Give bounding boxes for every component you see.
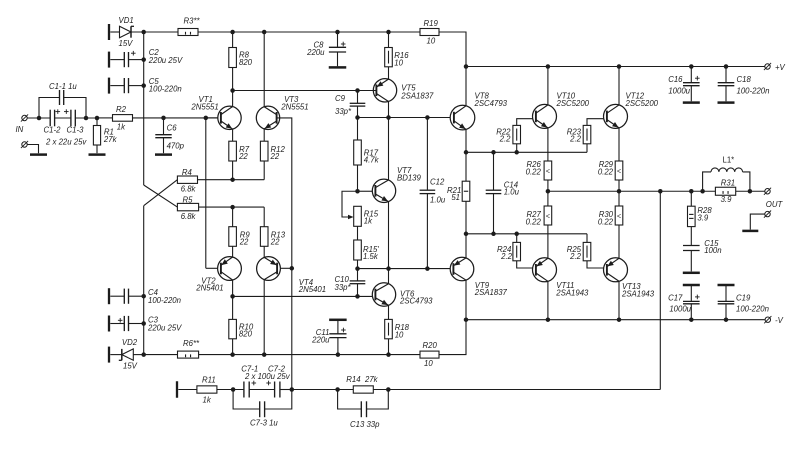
svg-text:100-220n: 100-220n bbox=[148, 296, 181, 305]
power bar for VD1 bbox=[108, 24, 110, 40]
svg-text:2SC5200: 2SC5200 bbox=[625, 99, 659, 108]
svg-text:6.8k: 6.8k bbox=[181, 212, 197, 221]
wire bbox=[263, 32, 265, 107]
svg-text:15V: 15V bbox=[119, 39, 134, 48]
junction bbox=[355, 266, 360, 271]
svg-text:220u 25V: 220u 25V bbox=[147, 324, 182, 333]
zener diode VD1 15V bbox=[119, 16, 135, 48]
junction bbox=[386, 266, 391, 271]
junction bbox=[546, 189, 551, 194]
wire bias -15V vertical bbox=[143, 206, 145, 355]
junction bbox=[491, 232, 496, 237]
wire VT3 base to feedback bbox=[277, 118, 292, 268]
resistor R1 27k bbox=[93, 118, 117, 153]
resistor R18 10 bbox=[385, 305, 410, 354]
junction bbox=[230, 177, 235, 182]
wire bbox=[292, 389, 354, 391]
svg-text:R31: R31 bbox=[721, 178, 735, 187]
svg-text:2SC4793: 2SC4793 bbox=[474, 99, 508, 108]
resistor R27 0.22 bbox=[526, 191, 552, 258]
ground bbox=[329, 66, 347, 69]
wire bbox=[439, 32, 466, 67]
resistor R16 10 bbox=[385, 32, 410, 79]
svg-text:C13 33p: C13 33p bbox=[350, 420, 380, 429]
resistor R10 820 bbox=[229, 296, 254, 354]
wire output rail bbox=[548, 190, 765, 192]
svg-text:100n: 100n bbox=[704, 246, 721, 255]
capacitor C7-3 1u bridge bbox=[233, 390, 292, 428]
resistor R29 0.22 bbox=[598, 160, 623, 191]
svg-text:C1-3: C1-3 bbox=[67, 126, 85, 135]
svg-text:R3**: R3** bbox=[184, 17, 201, 26]
junction bbox=[464, 64, 469, 69]
junction bbox=[141, 352, 146, 357]
wire VT2 collector bbox=[232, 280, 234, 296]
transistor VT1 2N5551 bbox=[190, 95, 241, 129]
wire bias cross 1 bbox=[144, 185, 178, 207]
wire VT8 emitter bbox=[465, 129, 467, 152]
svg-text:2N5551: 2N5551 bbox=[190, 102, 218, 111]
junction bbox=[335, 30, 340, 35]
junction bbox=[386, 115, 391, 120]
svg-text:C1-1 1u: C1-1 1u bbox=[49, 82, 77, 91]
wire VAS bottom line bbox=[233, 295, 373, 297]
junction bbox=[290, 266, 295, 271]
capacitor C8 220u bbox=[306, 32, 346, 66]
junction bbox=[689, 189, 694, 194]
capacitor C14 1.0u bbox=[486, 152, 520, 234]
svg-text:3.9: 3.9 bbox=[697, 213, 709, 222]
wire bbox=[206, 117, 218, 119]
svg-text:IN: IN bbox=[16, 125, 24, 134]
svg-text:2SC4793: 2SC4793 bbox=[399, 297, 433, 306]
svg-text:100-220n: 100-220n bbox=[149, 85, 182, 94]
capacitor C9 33p* bbox=[335, 91, 365, 118]
wire bbox=[178, 389, 197, 391]
capacitor C5 100-220n bbox=[110, 77, 181, 94]
svg-text:L1*: L1* bbox=[723, 156, 735, 165]
svg-text:10: 10 bbox=[394, 58, 403, 67]
transistor VT5 2SA1837 bbox=[373, 79, 434, 102]
resistor R31 3.9 bbox=[715, 178, 735, 204]
resistor R30 0.22 bbox=[598, 191, 623, 258]
wire bbox=[55, 117, 71, 119]
junction bbox=[700, 189, 705, 194]
resistor R4 6.8k bbox=[177, 168, 197, 194]
transistor VT11 2SA1943 bbox=[533, 258, 590, 298]
capacitor C7-1 bbox=[241, 365, 258, 398]
transistor VT12 2SC5200 bbox=[604, 92, 659, 129]
capacitor C12 1.0u bbox=[420, 118, 446, 269]
svg-text:2N5401: 2N5401 bbox=[298, 285, 326, 294]
wire VT11 emitter bbox=[547, 257, 549, 259]
wire VT4 collector bbox=[263, 280, 265, 355]
svg-text:10: 10 bbox=[424, 359, 433, 368]
svg-text:2.2: 2.2 bbox=[500, 252, 513, 261]
terminal +V bbox=[764, 63, 786, 72]
svg-text:C12: C12 bbox=[430, 178, 445, 187]
capacitor C18 100-220n bbox=[718, 67, 770, 102]
wire bbox=[97, 117, 113, 119]
svg-text:R11: R11 bbox=[202, 375, 216, 384]
svg-text:R20: R20 bbox=[423, 341, 438, 350]
input terminal IN bbox=[16, 114, 29, 134]
power bar for C4 bbox=[108, 288, 110, 304]
ground bbox=[683, 101, 700, 104]
junction bbox=[617, 317, 622, 322]
resistor R23 2.2 bbox=[567, 119, 604, 153]
svg-text:R14: R14 bbox=[346, 375, 361, 384]
junction bbox=[230, 88, 235, 93]
junction bbox=[355, 88, 360, 93]
wire VT10 collector bbox=[547, 67, 549, 105]
junction bbox=[617, 64, 622, 69]
svg-text:OUT: OUT bbox=[766, 200, 784, 209]
transistor VT10 2SC5200 bbox=[533, 92, 590, 129]
svg-text:<: < bbox=[546, 211, 550, 220]
junction bbox=[355, 115, 360, 120]
transistor VT3 2N5551 bbox=[256, 95, 308, 129]
svg-text:2SC5200: 2SC5200 bbox=[556, 99, 590, 108]
junction bbox=[546, 64, 551, 69]
svg-text:1k: 1k bbox=[203, 395, 212, 404]
junction bbox=[355, 189, 360, 194]
svg-text:51: 51 bbox=[451, 193, 460, 202]
wire VT6 collector bbox=[388, 269, 390, 284]
junction bbox=[141, 294, 146, 299]
power bar for C3 bbox=[108, 316, 110, 332]
resistor R2 1k bbox=[113, 105, 133, 132]
ground terminal below IN bbox=[21, 141, 47, 156]
junction bbox=[724, 317, 729, 322]
resistor R20 10 bbox=[420, 341, 439, 368]
resistor R24 2.2 bbox=[497, 234, 533, 268]
resistor R5 6.8k bbox=[177, 196, 198, 222]
junction bbox=[464, 150, 469, 155]
transistor VT4 2N5401 bbox=[257, 257, 327, 294]
wire feedback vertical bbox=[291, 268, 293, 389]
ground bar R11 bbox=[176, 381, 178, 398]
junction bbox=[230, 205, 235, 210]
junction bbox=[386, 387, 391, 392]
svg-text:<: < bbox=[617, 166, 621, 175]
junction bbox=[689, 317, 694, 322]
wire feedback from output bbox=[659, 191, 661, 389]
wire VAS lower node line bbox=[358, 268, 451, 270]
wire driver rail upper bbox=[466, 151, 587, 153]
wire bias cross 2 bbox=[144, 180, 178, 206]
svg-text:33p*: 33p* bbox=[335, 283, 352, 292]
svg-text:27k: 27k bbox=[103, 135, 118, 144]
svg-text:1.0u: 1.0u bbox=[430, 196, 446, 205]
resistor R9 22 bbox=[229, 207, 251, 257]
svg-text:2.2: 2.2 bbox=[569, 135, 582, 144]
svg-text:22: 22 bbox=[239, 237, 249, 246]
junction bbox=[514, 150, 519, 155]
junction bbox=[724, 64, 729, 69]
wire VT13 collector bbox=[618, 281, 620, 319]
svg-text:2SA1943: 2SA1943 bbox=[555, 288, 589, 297]
wire VT9 collector bbox=[465, 280, 467, 320]
svg-text:C17: C17 bbox=[668, 293, 683, 302]
resistor R12 22 bbox=[260, 129, 285, 180]
wire VT12 emitter bbox=[618, 128, 620, 161]
transistor VT6 2SC4793 bbox=[372, 283, 433, 306]
capacitor C16 1000u bbox=[668, 67, 699, 102]
ground terminal OUT bbox=[742, 211, 771, 233]
svg-text:22: 22 bbox=[238, 152, 248, 161]
junction bbox=[95, 116, 100, 121]
resistor R3** bbox=[178, 17, 201, 36]
resistor R11 1k bbox=[197, 375, 217, 404]
capacitor C6 470p bbox=[155, 118, 184, 153]
resistor R15' 1.5k bbox=[354, 240, 380, 269]
transistor VT9 2SA1837 bbox=[450, 257, 507, 297]
wire -V rail bbox=[466, 319, 765, 321]
junction bbox=[230, 30, 235, 35]
wire bbox=[373, 90, 376, 92]
svg-text:100-220n: 100-220n bbox=[736, 305, 769, 314]
inductor L1* bbox=[703, 156, 750, 192]
capacitor C19 100-220n bbox=[718, 284, 769, 320]
svg-text:220u: 220u bbox=[311, 336, 330, 345]
svg-text:3.9: 3.9 bbox=[721, 195, 733, 204]
svg-text:BD139: BD139 bbox=[397, 173, 422, 182]
ground bbox=[155, 153, 172, 156]
ground bbox=[683, 272, 700, 275]
trimmer R15 1k bbox=[342, 191, 379, 226]
svg-text:33p*: 33p* bbox=[335, 107, 352, 116]
junction bbox=[262, 352, 267, 357]
svg-text:R5: R5 bbox=[183, 196, 194, 205]
junction bbox=[617, 189, 622, 194]
wire bbox=[280, 267, 291, 269]
resistor R25 2.2 bbox=[567, 234, 604, 268]
resistor R7 22 bbox=[229, 129, 250, 180]
svg-text:15V: 15V bbox=[123, 362, 138, 371]
svg-text:C6: C6 bbox=[167, 124, 178, 133]
svg-text:2SA1837: 2SA1837 bbox=[474, 288, 508, 297]
junction bbox=[386, 352, 391, 357]
svg-text:2 x 100u 25v: 2 x 100u 25v bbox=[244, 372, 291, 381]
svg-text:22: 22 bbox=[270, 237, 280, 246]
capacitor C2 220u 25V bbox=[110, 48, 183, 67]
svg-text:2SA1943: 2SA1943 bbox=[621, 289, 655, 298]
terminal -V bbox=[764, 316, 783, 325]
junction bbox=[161, 116, 166, 121]
junction bbox=[290, 387, 295, 392]
resistor R6** bbox=[178, 339, 201, 358]
capacitor C7-2 bbox=[244, 365, 291, 398]
wire VT7 collector bbox=[388, 118, 390, 181]
wire bbox=[217, 389, 244, 391]
wire bbox=[75, 117, 97, 119]
wire VT11 collector bbox=[547, 281, 549, 319]
capacitor C1-2 bbox=[44, 109, 62, 134]
wire +V rail bbox=[466, 66, 765, 68]
junction bbox=[546, 317, 551, 322]
wire bbox=[232, 91, 234, 107]
wire VT10 emitter bbox=[547, 128, 549, 161]
transistor VT8 2SC4793 bbox=[450, 92, 507, 130]
svg-text:-V: -V bbox=[775, 316, 784, 325]
wire bbox=[373, 389, 660, 391]
svg-text:2.2: 2.2 bbox=[569, 252, 582, 261]
svg-text:<: < bbox=[617, 211, 621, 220]
ground bbox=[718, 101, 735, 104]
junction bbox=[658, 189, 663, 194]
capacitor C4 100-220n bbox=[110, 288, 181, 305]
wire bbox=[198, 31, 420, 33]
svg-text:0.22: 0.22 bbox=[598, 217, 614, 226]
svg-text:2.2: 2.2 bbox=[499, 135, 512, 144]
svg-text:820: 820 bbox=[239, 329, 253, 338]
svg-text:C18: C18 bbox=[737, 75, 752, 84]
capacitor C13 33p bridge bbox=[338, 390, 389, 430]
junction bbox=[425, 266, 430, 271]
junction bbox=[386, 30, 391, 35]
wire bbox=[28, 117, 51, 119]
svg-text:220u 25V: 220u 25V bbox=[148, 56, 183, 65]
wire driver rail lower bbox=[466, 233, 587, 235]
wire VT9 emitter bbox=[465, 234, 467, 258]
junction bbox=[84, 116, 89, 121]
junction bbox=[689, 64, 694, 69]
capacitor C1-3 bbox=[45, 109, 87, 146]
junction bbox=[204, 116, 209, 121]
svg-text:R6**: R6** bbox=[183, 339, 200, 348]
resistor R21 51 bbox=[447, 152, 470, 234]
resistor R28 3.9 bbox=[688, 191, 713, 245]
svg-text:1000u: 1000u bbox=[669, 305, 691, 314]
resistor R26 0.22 bbox=[526, 160, 552, 191]
wire bbox=[280, 389, 292, 391]
svg-text:22: 22 bbox=[270, 152, 280, 161]
svg-text:C1-2: C1-2 bbox=[44, 126, 62, 135]
capacitor C15 100n bbox=[683, 239, 722, 271]
power bar for C2 bbox=[108, 52, 110, 68]
resistor R8 820 bbox=[229, 32, 253, 91]
transistor VT7 BD139 bbox=[372, 166, 421, 203]
wire VT12 collector bbox=[618, 67, 620, 105]
resistor R14 27k bbox=[346, 375, 378, 393]
wire VT7 emitter bbox=[388, 202, 390, 269]
transistor VT13 2SA1943 bbox=[604, 258, 655, 299]
capacitor C17 1000u bbox=[668, 284, 700, 320]
svg-text:1k: 1k bbox=[364, 216, 373, 225]
svg-text:6.8k: 6.8k bbox=[181, 185, 197, 194]
svg-text:R2: R2 bbox=[116, 105, 127, 114]
svg-text:220u: 220u bbox=[306, 48, 325, 57]
wire bbox=[358, 190, 373, 192]
svg-text:VD2: VD2 bbox=[122, 338, 138, 347]
svg-text:1.5k: 1.5k bbox=[363, 252, 379, 261]
junction bbox=[37, 116, 42, 121]
junction bbox=[230, 352, 235, 357]
wire bbox=[439, 320, 466, 355]
wire VT5 collector bbox=[388, 102, 390, 118]
terminal OUT bbox=[764, 188, 784, 209]
resistor R13 22 bbox=[260, 207, 285, 257]
wire bbox=[357, 226, 359, 240]
junction bbox=[464, 232, 469, 237]
wire bbox=[144, 354, 178, 356]
svg-text:C19: C19 bbox=[736, 293, 751, 302]
junction bbox=[335, 387, 340, 392]
wire input to VT2 base bbox=[205, 118, 207, 268]
junction bbox=[336, 352, 341, 357]
resistor R17 4.7k bbox=[354, 118, 380, 192]
wire VT8 collector bbox=[465, 67, 467, 106]
svg-text:2 x 22u 25v: 2 x 22u 25v bbox=[45, 137, 87, 146]
svg-text:0.22: 0.22 bbox=[526, 217, 542, 226]
svg-text:C7-3 1u: C7-3 1u bbox=[250, 419, 278, 428]
wire bbox=[249, 389, 274, 391]
zener diode VD2 15V bbox=[110, 338, 143, 371]
wire bbox=[131, 31, 178, 33]
wire bbox=[110, 31, 119, 33]
svg-text:4.7k: 4.7k bbox=[364, 155, 380, 164]
wire tail line lower bbox=[199, 206, 265, 208]
junction bbox=[231, 387, 236, 392]
svg-text:2SA1837: 2SA1837 bbox=[400, 92, 434, 101]
capacitor C1-1 1u bridge bbox=[39, 82, 86, 118]
junction bbox=[355, 294, 360, 299]
capacitor C10 33p* bbox=[335, 269, 366, 297]
svg-text:2N5401: 2N5401 bbox=[195, 284, 223, 293]
svg-text:C16: C16 bbox=[668, 75, 683, 84]
svg-text:100-220n: 100-220n bbox=[737, 86, 770, 95]
svg-text:1k: 1k bbox=[117, 123, 126, 132]
node +15V junction bbox=[141, 30, 146, 35]
wire VT9 base bbox=[449, 268, 451, 270]
capacitor C3 220u 25V bbox=[110, 316, 182, 333]
svg-text:10: 10 bbox=[427, 37, 436, 46]
svg-text:2N5551: 2N5551 bbox=[280, 102, 308, 111]
wire bbox=[206, 267, 218, 269]
capacitor C11 220u bbox=[311, 319, 347, 355]
junction bbox=[748, 189, 753, 194]
svg-text:<: < bbox=[546, 166, 550, 175]
svg-text:R19: R19 bbox=[424, 19, 439, 28]
wire bottom rail bbox=[199, 354, 420, 356]
svg-text:10: 10 bbox=[395, 330, 404, 339]
svg-text:R4: R4 bbox=[182, 168, 193, 177]
junction bbox=[262, 30, 267, 35]
transistor VT2 2N5401 bbox=[195, 257, 241, 293]
power bar for VD2 bbox=[108, 347, 110, 363]
junction bbox=[141, 321, 146, 326]
ground bbox=[89, 153, 106, 156]
junction bbox=[230, 294, 235, 299]
power bar for C5 bbox=[108, 78, 110, 94]
junction bbox=[425, 115, 430, 120]
wire VAS node line bbox=[358, 117, 451, 119]
svg-text:1.0u: 1.0u bbox=[504, 188, 520, 197]
svg-text:+V: +V bbox=[775, 63, 786, 72]
svg-text:C9: C9 bbox=[335, 94, 346, 103]
wire VAS top line bbox=[233, 90, 374, 92]
svg-text:0.22: 0.22 bbox=[598, 167, 614, 176]
svg-text:470p: 470p bbox=[167, 141, 185, 150]
junction bbox=[464, 317, 469, 322]
svg-text:27k: 27k bbox=[364, 375, 379, 384]
resistor R19 10 bbox=[420, 19, 439, 46]
junction bbox=[141, 83, 146, 88]
wire bias +15V vertical bbox=[143, 32, 145, 185]
svg-text:1000u: 1000u bbox=[668, 86, 690, 95]
svg-text:820: 820 bbox=[239, 58, 253, 67]
